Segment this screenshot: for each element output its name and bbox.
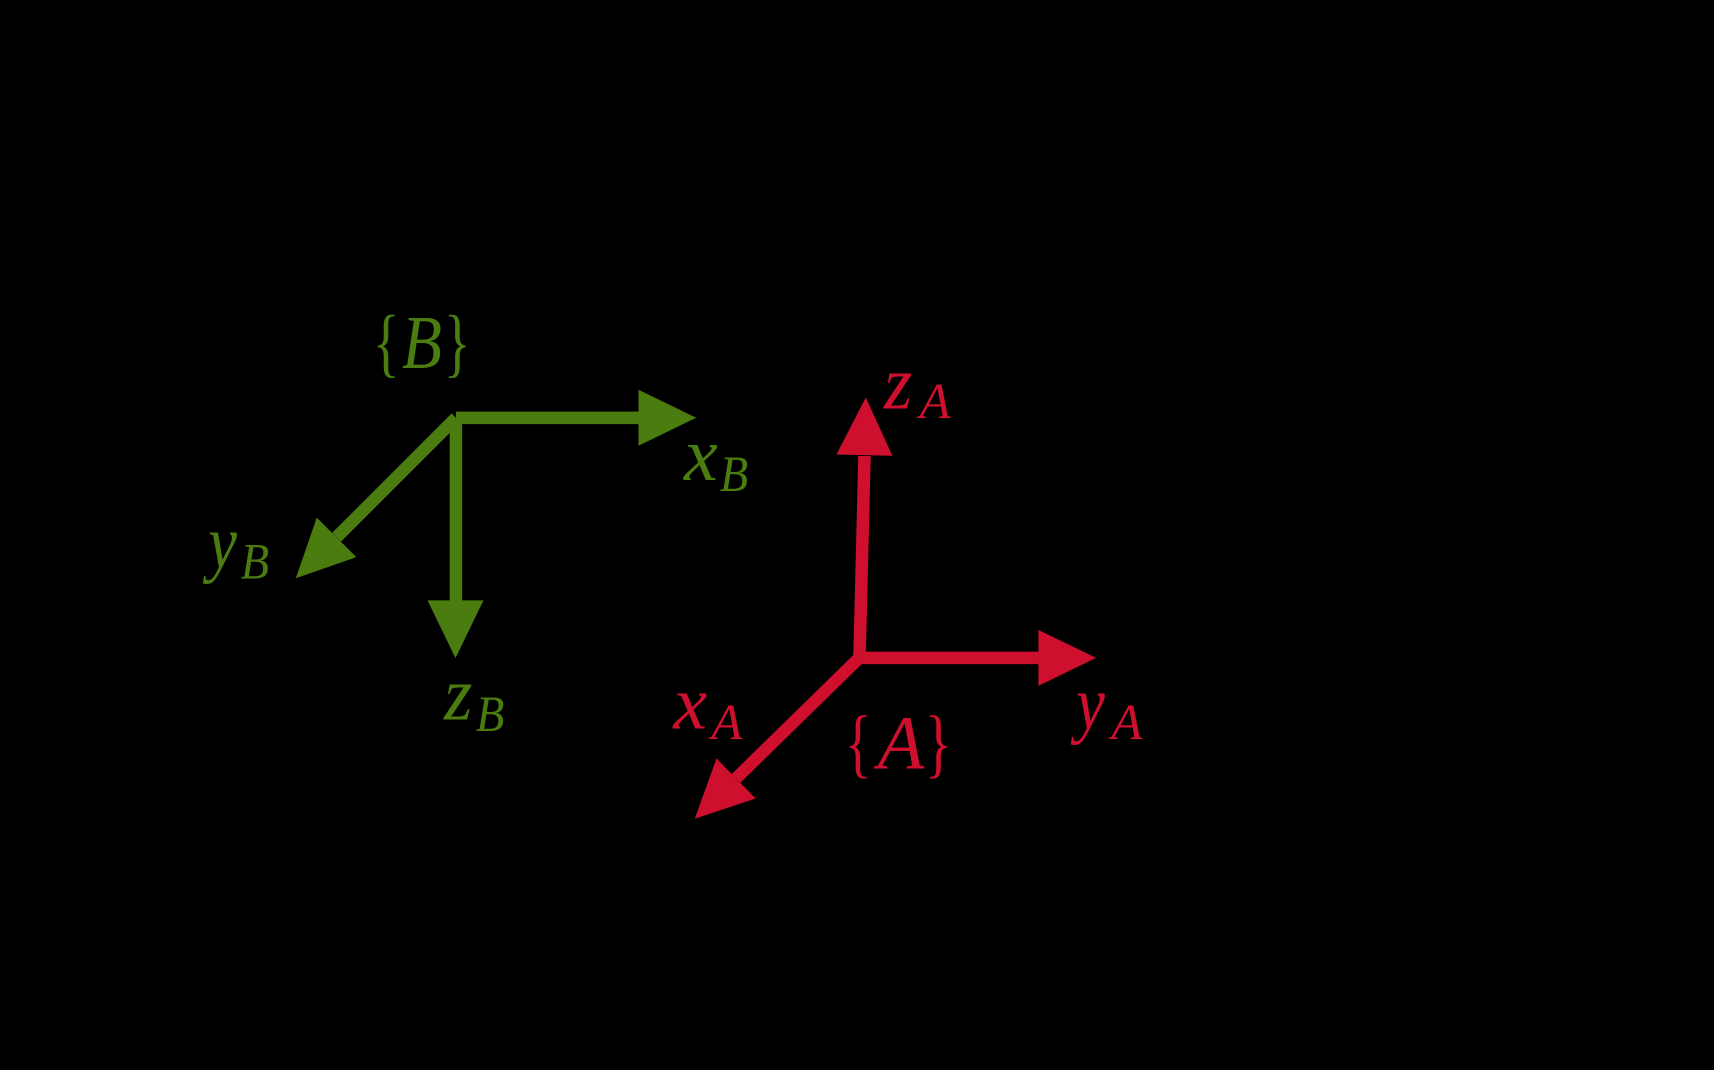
- frame B x-axis arrow (green, to the right): [456, 390, 696, 446]
- frame B z-axis arrow (green, straight down): [428, 418, 484, 658]
- frame A x-axis label xA: [672, 661, 743, 751]
- svg-text:A: A: [708, 695, 743, 751]
- frame B x-axis label xB: [683, 413, 748, 503]
- frame B y-axis label yB: [203, 501, 269, 590]
- svg-text:z: z: [883, 342, 912, 426]
- frame A origin label {A}: [845, 701, 952, 785]
- svg-text:B: B: [720, 446, 748, 502]
- svg-text:A: A: [1108, 695, 1143, 751]
- frame B origin label {B}: [373, 301, 471, 385]
- svg-text:x: x: [683, 413, 718, 497]
- svg-text:}: }: [925, 701, 952, 785]
- frame A x-axis arrow (red, down-left): [695, 653, 864, 819]
- svg-text:B: B: [402, 302, 442, 386]
- svg-text:{: {: [373, 301, 400, 385]
- svg-text:{: {: [845, 701, 872, 785]
- svg-text:x: x: [672, 661, 707, 745]
- svg-text:A: A: [873, 701, 925, 785]
- svg-text:y: y: [1071, 662, 1106, 746]
- frame B z-axis label zB: [443, 653, 504, 742]
- frame A z-axis arrow (red, up, slightly tilted right): [836, 398, 892, 658]
- frame B y-axis arrow (green, down-left): [296, 413, 461, 578]
- svg-text:B: B: [476, 686, 504, 742]
- frame A y-axis label yA: [1071, 662, 1144, 751]
- svg-text:y: y: [203, 501, 238, 585]
- svg-text:}: }: [444, 301, 471, 385]
- svg-text:z: z: [443, 653, 472, 737]
- svg-text:B: B: [241, 534, 269, 590]
- frame A y-axis arrow (red, to the right): [860, 630, 1097, 686]
- svg-text:A: A: [917, 374, 952, 430]
- frame A z-axis label zA: [883, 342, 952, 430]
